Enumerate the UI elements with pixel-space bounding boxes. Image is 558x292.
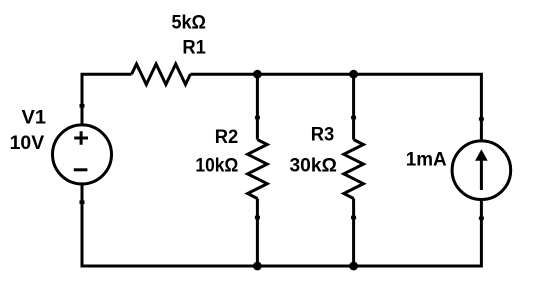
- pin mark V1 bottom: [80, 200, 85, 204]
- wire R3 branch lower: [352, 199, 355, 267]
- resistor R2: [248, 140, 268, 199]
- wire R3 branch upper: [352, 74, 355, 139]
- wire R2 branch lower: [256, 199, 259, 267]
- V1 plus symbol: [74, 131, 88, 145]
- svg-text:R3: R3: [311, 124, 335, 146]
- wire top-left segment (V1 top node to R1 left pin): [82, 74, 132, 124]
- pin mark V1 top: [80, 104, 85, 108]
- junction dot bottom at R3: [349, 262, 358, 271]
- pin mark R2 top: [255, 116, 260, 119]
- svg-text:30kΩ: 30kΩ: [289, 155, 337, 177]
- wire top-right segment (R1 right pin across node A and node B to I1 top): [190, 74, 481, 140]
- wire bottom rail: [81, 201, 482, 267]
- pin mark R3 top: [351, 116, 356, 119]
- svg-text:10V: 10V: [10, 132, 45, 154]
- pin mark I1 bottom: [479, 217, 484, 220]
- pin mark R2 bottom: [255, 216, 260, 220]
- junction dot node B top (R3): [349, 70, 358, 79]
- resistor R1: [132, 64, 191, 85]
- svg-text:10kΩ: 10kΩ: [195, 155, 238, 177]
- current source I1 circle: [452, 141, 511, 200]
- pin mark R3 bottom: [351, 216, 356, 220]
- I1 arrow shaft: [480, 157, 483, 190]
- resistor R3: [344, 140, 364, 199]
- voltage source V1 circle: [53, 125, 112, 184]
- svg-text:R2: R2: [215, 126, 239, 148]
- svg-text:V1: V1: [22, 106, 47, 128]
- junction dot bottom at R2: [253, 262, 262, 271]
- V1 minus symbol: [74, 168, 88, 171]
- pin mark I1 top: [479, 117, 484, 120]
- svg-text:R1: R1: [182, 37, 206, 59]
- svg-text:5kΩ: 5kΩ: [171, 11, 206, 33]
- junction dot node A top (R2): [253, 70, 262, 79]
- wire left vertical lower (V1 bottom to bottom rail): [81, 184, 84, 266]
- wire R2 branch upper: [256, 74, 259, 139]
- svg-text:1mA: 1mA: [406, 149, 447, 171]
- I1 arrow head: [475, 149, 488, 161]
